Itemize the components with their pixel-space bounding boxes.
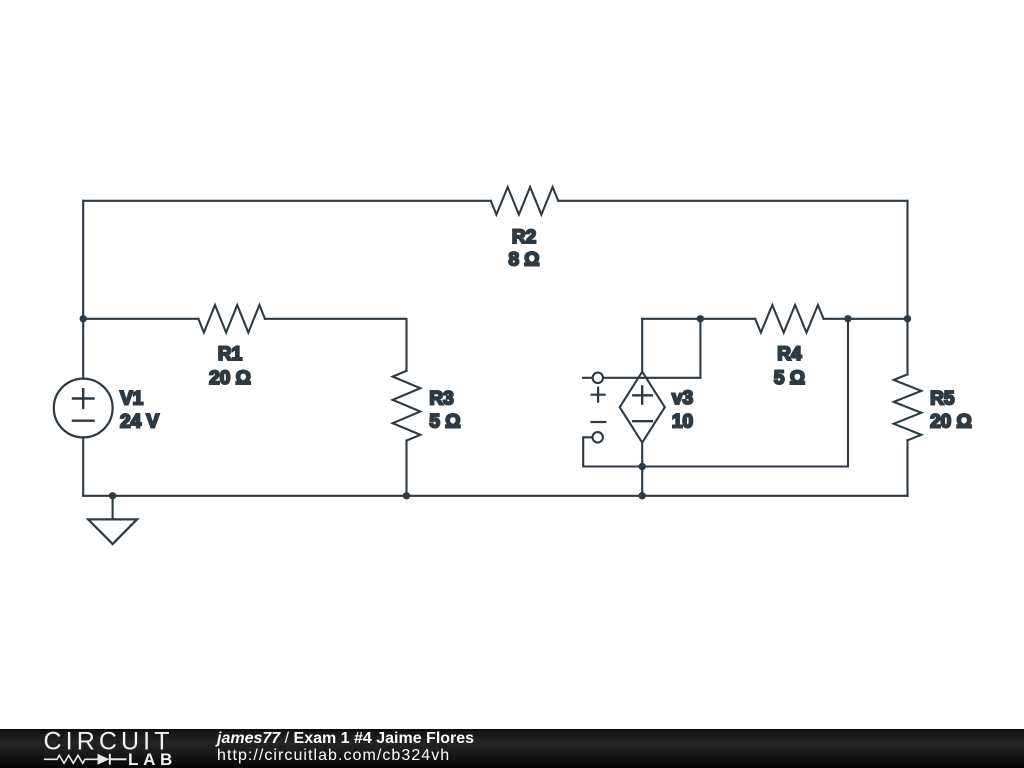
logo diode glyph xyxy=(98,754,110,765)
wire left rail lower vertical xyxy=(82,437,84,495)
wire v3 control lower lead xyxy=(583,319,848,467)
resistor R5 xyxy=(894,374,922,440)
svg-text:R4: R4 xyxy=(777,344,802,365)
resistor R4 xyxy=(755,305,823,333)
junction node at v3 bottom rail xyxy=(639,492,646,499)
junction node at right rail xyxy=(904,315,911,322)
svg-text:8 Ω: 8 Ω xyxy=(508,250,539,271)
svg-text:R1: R1 xyxy=(218,344,243,365)
wire v3 top lead up xyxy=(641,319,643,372)
wire v3 control upper lead xyxy=(583,319,700,378)
wire left rail upper vertical xyxy=(82,201,84,379)
wire R1 to R3 xyxy=(265,319,407,371)
V1 plus sign xyxy=(73,389,94,408)
svg-text:20 Ω: 20 Ω xyxy=(209,368,251,389)
wire right rail upper vertical xyxy=(906,201,908,375)
svg-text:R2: R2 xyxy=(512,227,536,248)
v3 control negative terminal xyxy=(593,432,603,442)
wire top-right horizontal (R2 to right rail) xyxy=(558,200,907,202)
logo resistor glyph xyxy=(44,755,98,763)
resistor R2 xyxy=(491,187,558,215)
CircuitLab logo xyxy=(0,729,200,768)
svg-text:R5: R5 xyxy=(930,389,955,410)
svg-text:5 Ω: 5 Ω xyxy=(774,368,805,389)
resistor R1 xyxy=(198,305,265,333)
ground xyxy=(88,519,137,544)
svg-text:24 V: 24 V xyxy=(120,411,159,432)
svg-text:R3: R3 xyxy=(429,388,453,409)
wire R4 right to right rail xyxy=(824,318,908,320)
wire R3 bottom lead xyxy=(405,441,407,496)
wire v3 bottom lead xyxy=(641,443,643,496)
ground stub wire xyxy=(112,496,114,520)
voltage source V1 xyxy=(54,379,113,438)
junction node at ground xyxy=(109,492,116,499)
footer title and url text xyxy=(217,731,474,764)
v3 control positive terminal xyxy=(593,373,603,383)
wire diamond-top node to R4 xyxy=(642,318,755,320)
wire bottom rail xyxy=(83,495,907,497)
v3 internal plus sign xyxy=(633,386,652,403)
svg-text:V1: V1 xyxy=(120,388,144,409)
svg-text:v3: v3 xyxy=(672,388,693,409)
junction node at left rail / R1 xyxy=(80,315,87,322)
junction node at R3 bottom xyxy=(403,492,410,499)
wire top-left horizontal (node A to R2) xyxy=(83,200,491,202)
v3 control minus sign xyxy=(592,421,606,423)
svg-text:20 Ω: 20 Ω xyxy=(930,412,972,433)
footer bar xyxy=(0,729,1024,768)
svg-text:LAB: LAB xyxy=(128,750,177,768)
v3 internal minus sign xyxy=(633,420,652,422)
v3 control plus sign xyxy=(592,388,605,402)
wire R5 bottom lead xyxy=(906,440,908,496)
wire R1 branch left lead xyxy=(83,318,198,320)
svg-text:10: 10 xyxy=(672,412,693,433)
dependent source v3 (diamond) xyxy=(620,372,665,443)
V1 minus sign xyxy=(73,420,94,422)
junction node at R4 right xyxy=(844,315,851,322)
svg-text:5 Ω: 5 Ω xyxy=(429,412,460,433)
junction node at v3 top wire xyxy=(697,315,704,322)
junction node at v3 control return xyxy=(639,463,646,470)
resistor R3 xyxy=(393,371,421,441)
